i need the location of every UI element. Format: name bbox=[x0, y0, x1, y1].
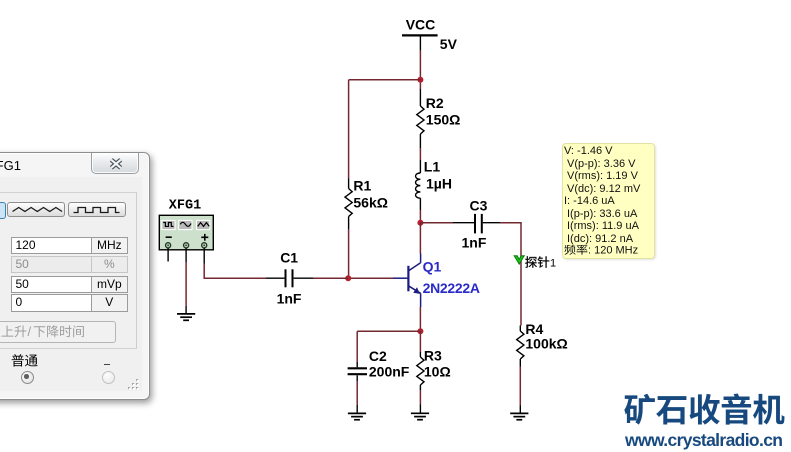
svg-text:www.crystalradio.cn: www.crystalradio.cn bbox=[624, 430, 783, 450]
